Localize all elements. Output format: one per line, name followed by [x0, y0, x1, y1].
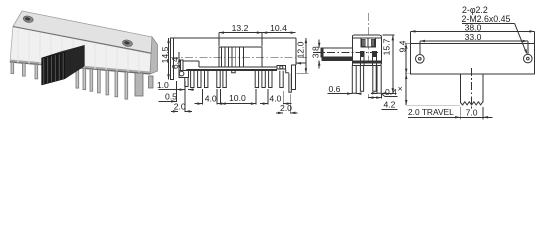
left ear with rivet [181, 60, 183, 71]
body ledges [183, 60, 199, 62]
dimension 15.7 overall height [383, 34, 395, 36]
dimension 3.8 knob thickness [318, 40, 320, 49]
side legs [352, 66, 356, 94]
svg-text:2.0: 2.0 [174, 102, 186, 112]
vertical centerline [367, 13, 369, 66]
terminal pins [191, 71, 194, 88]
TOP VIEW of slide switch [410, 44, 534, 109]
left bracket plate [171, 38, 174, 80]
right ear with rivet [277, 65, 286, 69]
svg-text:0.6: 0.6 [329, 84, 341, 94]
svg-text:4.2: 4.2 [384, 99, 396, 109]
svg-text:14.5: 14.5 [160, 46, 170, 63]
FRONT VIEW of slide switch [171, 38, 309, 92]
SIDE VIEW of slide switch [313, 13, 381, 93]
svg-text:10.4: 10.4 [270, 23, 287, 33]
svg-text:13.2: 13.2 [232, 23, 249, 33]
center notch [232, 71, 236, 73]
right thin pin [289, 73, 291, 92]
svg-text:12.0: 12.0 [296, 41, 306, 58]
dimension 10.4 [262, 32, 296, 34]
body front face [10, 27, 153, 75]
bottom shadow band [10, 60, 150, 75]
knob centerline [471, 68, 473, 109]
right mounting hole [122, 39, 133, 47]
leader line to right hole [515, 23, 527, 53]
svg-text:4.0: 4.0 [269, 94, 281, 104]
svg-text:6.4: 6.4 [170, 57, 180, 69]
dimension X to travel break [405, 74, 407, 105]
left mounting hole [416, 55, 425, 64]
left ear leg [185, 77, 188, 86]
dimension 14.5 overall height [168, 38, 170, 80]
svg-text:2.0 TRAVEL: 2.0 TRAVEL [408, 107, 454, 117]
side body outline [352, 35, 381, 65]
black serrated slider knob [42, 45, 85, 58]
dimension 12.0 right side [305, 38, 307, 74]
front face streaks [18, 29, 139, 74]
dimension 9.4 body width [405, 43, 410, 45]
svg-text:0.5: 0.5 [165, 92, 177, 102]
lid seam line [13, 27, 153, 54]
right bracket leg [135, 73, 143, 96]
horizontal centerline [171, 56, 308, 58]
svg-text:15.7: 15.7 [382, 38, 392, 55]
3D isometric photo of slide switch [10, 11, 158, 99]
body top face [13, 11, 153, 54]
knob shaft pointing left [323, 48, 352, 57]
svg-text:10.0: 10.0 [229, 93, 246, 103]
terminal pins [11, 62, 14, 73]
right bracket plate [291, 65, 295, 90]
svg-text:1.0: 1.0 [157, 80, 169, 90]
svg-text:9.4: 9.4 [398, 40, 408, 52]
svg-text:×: × [398, 83, 403, 93]
svg-text:0.4: 0.4 [385, 87, 397, 97]
lid right edge [295, 38, 297, 65]
top view body [410, 44, 534, 74]
right step [286, 69, 289, 73]
base band [186, 69, 188, 70]
cap inner line [352, 37, 381, 39]
internal terminal slots [360, 52, 364, 66]
lid top line [171, 37, 296, 39]
small arrow marker near right plate [296, 62, 306, 64]
right mounting hole [524, 54, 533, 63]
svg-text:3.8: 3.8 [311, 46, 321, 58]
flange band on body [352, 61, 381, 63]
dimension 13.2 knob width [219, 32, 262, 34]
horizontal centerline of knob [313, 51, 378, 53]
svg-text:4.0: 4.0 [205, 94, 217, 104]
dimension 6.4 [178, 52, 180, 70]
knob flange [322, 58, 352, 61]
knob from top with broken serrated end [459, 74, 461, 103]
far right leg [149, 76, 154, 88]
svg-text:7.0: 7.0 [466, 107, 478, 117]
knob front view with serrations [219, 47, 262, 67]
left mounting hole [23, 15, 34, 23]
right end cap [150, 37, 158, 74]
contact window [361, 38, 375, 47]
